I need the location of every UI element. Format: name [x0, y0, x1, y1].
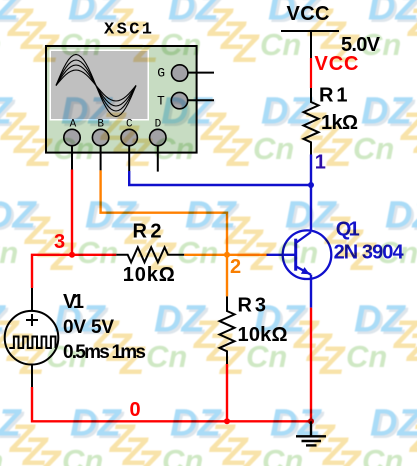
- source V1: [5, 288, 59, 387]
- resistor R2: [116, 247, 184, 262]
- wire R3 to ground net (red): [226, 364, 228, 421]
- transistor Q1: [283, 230, 332, 279]
- wire VCC red segment: [310, 58, 312, 88]
- wire node 2 to base (orange): [227, 254, 267, 256]
- junction R3 ground: [224, 418, 230, 424]
- junction emitter ground: [308, 418, 314, 424]
- wire emitter to ground (red): [310, 308, 312, 422]
- resistor R1: [304, 88, 319, 155]
- wire emitter (blue): [310, 275, 312, 308]
- junction node 2: [224, 252, 230, 258]
- terminal C: [121, 119, 137, 171]
- terminal G: [157, 65, 214, 81]
- terminal B: [92, 119, 108, 171]
- resistor R3: [220, 296, 235, 364]
- wire node 3 (red): [32, 255, 116, 288]
- wire V1 to ground net (red): [32, 387, 311, 421]
- oscilloscope waveform: [56, 55, 136, 117]
- wire C to node 1 (blue): [129, 171, 311, 185]
- oscilloscope XSC1 body: [46, 46, 197, 153]
- wire node 1 to collector: [310, 185, 312, 231]
- junction node 3: [69, 252, 75, 258]
- terminal D: [150, 119, 166, 172]
- wire A to node 3 (red): [71, 170, 73, 255]
- terminal A: [64, 119, 80, 170]
- wire base blue segment: [267, 254, 283, 256]
- power VCC symbol: [281, 31, 339, 58]
- wire node 2 to R3 (orange): [226, 255, 228, 296]
- ground: [296, 421, 326, 445]
- wire R1 to node 1: [310, 155, 312, 186]
- terminal T: [157, 92, 214, 108]
- junction node 1: [308, 182, 314, 188]
- wire B to node 2 (orange): [101, 170, 227, 254]
- wire R2 to node 2 (orange): [184, 254, 227, 256]
- svg-text:R1: R1: [319, 85, 348, 107]
